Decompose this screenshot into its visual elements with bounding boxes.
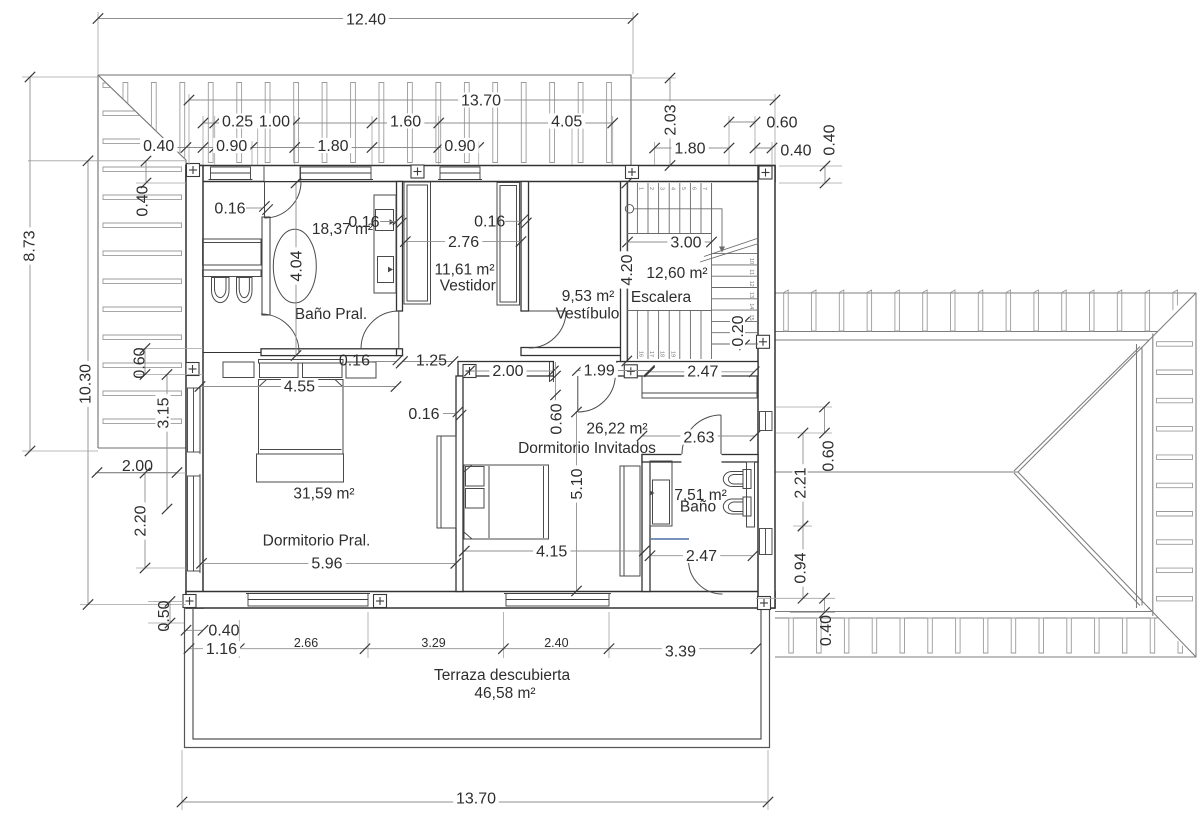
svg-text:1.00: 1.00 — [259, 113, 290, 130]
west wall — [186, 166, 203, 609]
interior wall V1: Bano Pral east — [397, 182, 403, 312]
svg-text:0.40: 0.40 — [821, 124, 838, 155]
dimension label 0.25 — [219, 113, 256, 130]
stair tread numbers (lower flight) — [638, 351, 676, 357]
dimension chain row 2 — [164, 142, 484, 152]
dimension 2.21 (vertical) — [792, 428, 809, 531]
window in south wall (Dormitorio Pral) — [246, 594, 370, 607]
svg-text:7: 7 — [701, 187, 707, 190]
svg-text:0.60: 0.60 — [766, 114, 797, 131]
svg-text:14: 14 — [748, 303, 754, 309]
dimension 0.94 (vertical) — [792, 521, 809, 604]
svg-text:3.39: 3.39 — [665, 643, 696, 660]
svg-text:1.80: 1.80 — [317, 138, 348, 155]
svg-text:2.00: 2.00 — [492, 363, 523, 380]
dimension 2.20 (vertical) — [132, 468, 150, 573]
door opening D1 in north wall (white gap) — [264, 167, 300, 182]
column marker SE — [758, 597, 771, 610]
Vestidor closet (east strip) — [497, 183, 520, 306]
svg-text:3: 3 — [659, 187, 665, 190]
dimension chain row 1 — [198, 118, 618, 128]
svg-text:Vestidor: Vestidor — [440, 278, 496, 295]
svg-text:12,60 m²: 12,60 m² — [646, 265, 707, 282]
extension lines — [22, 12, 842, 810]
svg-text:0.40: 0.40 — [143, 138, 174, 155]
Bano south door swing — [689, 560, 723, 594]
svg-text:0.90: 0.90 — [444, 138, 475, 155]
interior wall: Bano north — [642, 455, 758, 463]
svg-text:4.55: 4.55 — [284, 379, 315, 396]
svg-text:Dormitorio Invitados: Dormitorio Invitados — [518, 440, 656, 457]
svg-text:4.04: 4.04 — [288, 250, 305, 281]
dimension 4.15 — [459, 543, 649, 560]
interior wall: Bano Pral south (thin) — [261, 349, 397, 356]
Bano Pral SW door swing — [261, 314, 299, 352]
dimension 2.00 left — [92, 458, 182, 478]
window in south wall (Dormitorio Invitados) — [504, 594, 611, 607]
svg-text:0.94: 0.94 — [792, 552, 809, 583]
dimension 13.70 top — [184, 92, 780, 109]
column marker NW — [187, 164, 200, 177]
Bano Pral vanity counter — [203, 239, 262, 265]
dimension 3.00 escalera — [622, 234, 716, 251]
dimension 0.60 wall left (vertical) — [131, 343, 150, 379]
svg-text:3.00: 3.00 — [670, 234, 701, 251]
Dormitorio Invitados closet strip (north) — [642, 376, 757, 398]
Dormitorio Invitados pillow 2 — [466, 489, 485, 509]
dimension 0.40 wall right (vertical) — [820, 124, 839, 188]
dimension 0.50 (vertical) — [156, 596, 175, 631]
hip diagonal (lower) — [1018, 472, 1196, 657]
dimension 1.99 — [572, 363, 654, 380]
svg-text:10.30: 10.30 — [77, 364, 94, 404]
interior wall V3: Vestibulo/Escalera — [621, 182, 628, 362]
svg-text:0.40: 0.40 — [780, 142, 811, 159]
stair break lines — [700, 238, 759, 262]
dimension 0.40 eave left (vertical) — [134, 156, 151, 217]
dimension 0.16 bath east wall — [348, 214, 406, 231]
dimension 4.55 — [195, 379, 401, 396]
roof eave hatch strips (left band) — [103, 83, 182, 424]
Dormitorio Pral pillow 2 — [303, 363, 343, 378]
Dormitorio Pral nightstand right — [346, 362, 376, 378]
Bano Pral bidet — [237, 278, 253, 303]
Bano entry door leaf+swing — [682, 415, 721, 454]
dimension 0.40 top right — [750, 142, 812, 159]
svg-text:0.40: 0.40 — [208, 622, 239, 639]
dimension 0.16 dividing wall — [408, 406, 466, 423]
svg-text:19: 19 — [669, 351, 675, 357]
roof eave hatch strips (top band) — [123, 83, 611, 163]
svg-text:2.03: 2.03 — [662, 104, 679, 135]
svg-text:4.15: 4.15 — [536, 543, 567, 560]
window W2 in north wall (Bano Pral east) — [299, 167, 374, 180]
dimension 1.80 escalera — [649, 140, 734, 157]
svg-text:0.60: 0.60 — [131, 347, 148, 378]
hip roof outline (right wing) — [771, 293, 1196, 657]
interior wall: Vestibulo south segment (x566-621) — [521, 348, 621, 356]
dimension label 3.39 — [662, 643, 699, 660]
north wall — [186, 166, 775, 182]
Bano toilet 1 — [723, 470, 751, 489]
Vestidor closet (west strip) — [404, 182, 431, 304]
window W1 in north wall (Bano Pral) — [188, 167, 773, 607]
dimension 0.20 escalera (vertical) — [730, 312, 750, 350]
column marker N escalera — [626, 166, 639, 179]
dimension 0.60 passage — [548, 362, 565, 438]
dimension 2.47 bano — [645, 548, 758, 565]
dimension 0.40 roof right (vertical) — [818, 593, 835, 646]
svg-text:0.16: 0.16 — [348, 214, 379, 231]
south wall — [186, 592, 775, 609]
svg-text:13.70: 13.70 — [456, 790, 496, 807]
svg-text:11,61 m²: 11,61 m² — [434, 262, 494, 279]
svg-text:1.80: 1.80 — [674, 140, 705, 157]
stair start post circle — [625, 205, 633, 213]
dimension label 0.90 — [213, 138, 250, 155]
dimension 4.20 (vertical) — [619, 178, 636, 366]
Bano toilet 2 — [723, 497, 751, 516]
svg-text:1.99: 1.99 — [584, 363, 615, 380]
roof eave outline (left + top) — [98, 75, 631, 448]
Dormitorio Pral headboard — [259, 360, 344, 364]
window in east wall (lower) — [760, 529, 773, 555]
dimension 8.73 (vertical) — [21, 72, 38, 456]
svg-text:0.40: 0.40 — [818, 615, 835, 646]
hip roof ridge line — [771, 471, 1018, 473]
dimension label 1.60 — [387, 113, 424, 130]
Dormitorio Invitados tall cabinet (east) — [620, 466, 640, 576]
svg-text:Baño: Baño — [680, 499, 716, 516]
svg-text:0.25: 0.25 — [222, 113, 253, 130]
dimension 0.60 top right — [724, 114, 798, 131]
window W3 in north wall (Vestidor) — [438, 167, 482, 180]
svg-text:5: 5 — [680, 187, 686, 190]
svg-text:18: 18 — [659, 351, 665, 357]
interior wall: central band west segment (x462-553) — [458, 362, 553, 377]
stair walk line with arrow — [634, 209, 725, 253]
stair upper flight treads — [637, 183, 711, 234]
Bano Pral partition wall stub — [262, 217, 270, 315]
svg-text:0.60: 0.60 — [548, 403, 565, 434]
interior wall: central band east segment (x617-758) — [617, 362, 758, 377]
svg-text:2.63: 2.63 — [683, 429, 714, 446]
stair east flight treads — [712, 254, 759, 344]
east wall — [758, 166, 775, 609]
window in west wall (upper, Dormitorio Pral) — [188, 386, 201, 454]
hip roof hatch strips (top band) — [784, 290, 1178, 331]
svg-text:Vestíbulo: Vestíbulo — [556, 306, 620, 323]
column marker N vestidor — [411, 165, 424, 178]
svg-text:Dormitorio Pral.: Dormitorio Pral. — [263, 533, 371, 550]
dimension 2.63 — [637, 429, 760, 446]
svg-text:0.16: 0.16 — [214, 200, 245, 217]
svg-text:Baño Pral.: Baño Pral. — [295, 306, 367, 323]
dimension 4.04 (vertical) — [288, 178, 305, 361]
Bano Pral fixture rail — [203, 270, 262, 277]
svg-text:0.50: 0.50 — [156, 600, 173, 631]
svg-text:3.29: 3.29 — [421, 636, 445, 650]
Dormitorio Invitados pillow 1 — [466, 467, 485, 487]
Dormitorio Pral bed foot bench — [257, 454, 344, 482]
dimension 0.60 roof right (vertical) — [819, 402, 837, 472]
column marker W center — [186, 363, 199, 376]
column markers (+) — [183, 164, 772, 610]
dimension 0.16 vestidor wall — [474, 214, 531, 231]
dimension label 1.00 — [256, 113, 293, 130]
stair lower flight edge — [628, 310, 712, 312]
Dormitorio Pral bed — [259, 380, 344, 455]
svg-text:12.40: 12.40 — [346, 11, 386, 28]
dimension label 0.40 — [140, 138, 177, 155]
svg-text:2.66: 2.66 — [294, 636, 318, 650]
Dormitorio Pral wardrobe (east) — [437, 436, 456, 528]
Bano Pral wardrobe column (east) — [374, 195, 396, 293]
svg-text:0.16: 0.16 — [474, 214, 505, 231]
Bano Pral WC — [212, 278, 230, 303]
window in west wall (lower, Dormitorio Pral) — [188, 474, 201, 573]
stair tread numbers (east flight) — [748, 258, 754, 321]
interior wall V5: Bano west — [642, 455, 650, 592]
svg-text:1.25: 1.25 — [416, 352, 447, 369]
svg-text:2.76: 2.76 — [448, 234, 479, 251]
svg-text:2.21: 2.21 — [792, 467, 809, 498]
svg-text:5.96: 5.96 — [311, 556, 342, 573]
svg-text:46,58 m²: 46,58 m² — [474, 685, 535, 702]
Vestibulo door leaf+swing — [529, 311, 566, 348]
Dormitorio Pral nightstand left — [223, 362, 254, 378]
dimension 0.40 terrace — [181, 622, 240, 639]
dimension label 4.05 — [548, 113, 585, 130]
dimension 5.96 — [196, 556, 461, 573]
svg-text:5.10: 5.10 — [569, 468, 586, 499]
dimension 0.16 row south of bath — [339, 352, 406, 369]
stair flight separator — [711, 183, 713, 359]
dimension 3.15 (vertical) — [155, 369, 172, 514]
Dormitorio Invitados entry door leaf+swing — [578, 375, 616, 413]
hip roof hatch strips (right band) — [1157, 342, 1193, 601]
svg-text:1.16: 1.16 — [206, 641, 237, 658]
svg-text:4: 4 — [669, 187, 675, 190]
svg-text:0.20: 0.20 — [730, 315, 747, 346]
svg-text:0.60: 0.60 — [820, 440, 837, 471]
svg-text:12: 12 — [748, 281, 754, 287]
svg-text:2.47: 2.47 — [686, 548, 717, 565]
column marker center band A — [463, 365, 476, 378]
column marker center band B — [624, 365, 637, 378]
dimension 2.76 — [400, 234, 526, 251]
hip diagonal (upper) — [1018, 293, 1196, 472]
threshold line at Bano Pral SW opening — [203, 352, 261, 354]
interior wall V4: Dormitorio Pral/Invitados — [456, 376, 463, 592]
interior wall V2: Vestidor/Vestibulo — [521, 182, 529, 312]
dimension terrace chain — [184, 644, 761, 654]
dimension 2.47 escalera — [644, 364, 759, 381]
Dormitorio Invitados bed — [464, 465, 549, 539]
column marker S center — [374, 595, 387, 608]
dimension 2.00 vestibulo — [464, 363, 558, 380]
svg-text:4.20: 4.20 — [619, 254, 636, 285]
svg-text:2.00: 2.00 — [122, 458, 153, 475]
svg-text:2.47: 2.47 — [687, 364, 718, 381]
dimension 1.25 — [397, 352, 458, 369]
column marker E stair — [757, 335, 770, 348]
svg-text:0.16: 0.16 — [408, 406, 439, 423]
svg-text:9,53 m²: 9,53 m² — [562, 288, 615, 305]
terrace parapet outline — [185, 608, 770, 748]
svg-text:1: 1 — [638, 187, 644, 190]
interior wall V1 lower stub — [397, 349, 403, 356]
svg-text:6: 6 — [691, 187, 697, 190]
svg-text:13.70: 13.70 — [461, 92, 501, 109]
svg-text:2.20: 2.20 — [132, 505, 149, 536]
svg-text:4.05: 4.05 — [551, 113, 582, 130]
svg-text:0.16: 0.16 — [339, 352, 370, 369]
passage jamb stubs at x553/x577 — [552, 362, 554, 383]
svg-text:Escalera: Escalera — [631, 289, 692, 306]
svg-text:2.40: 2.40 — [544, 636, 568, 650]
svg-text:11: 11 — [748, 269, 754, 275]
stair tread numbers (upper flight) — [638, 187, 708, 190]
dimension 2.03 (vertical) — [662, 73, 679, 171]
column marker SW — [183, 595, 196, 608]
stair lower flight treads — [637, 311, 701, 360]
dimension 10.30 (vertical) — [77, 156, 94, 610]
Bano Pral whirlpool tub (ellipse) — [273, 229, 316, 303]
svg-text:10: 10 — [748, 258, 754, 264]
svg-text:17: 17 — [648, 351, 654, 357]
dimension 13.70 bottom — [177, 790, 773, 807]
Bano vanity/shower unit — [650, 461, 672, 526]
column marker NE — [759, 166, 772, 179]
Bano wall shelf strip — [747, 462, 755, 527]
dimension label 1.16 — [203, 641, 240, 658]
Bano towel rail (blue) — [651, 538, 689, 540]
svg-text:2: 2 — [648, 187, 654, 190]
svg-text:3.15: 3.15 — [155, 397, 172, 428]
dimension 5.10 (vertical) — [569, 407, 586, 596]
svg-text:0.90: 0.90 — [216, 138, 247, 155]
svg-text:16: 16 — [638, 351, 644, 357]
Bano Pral north door leaf+swing — [265, 182, 302, 219]
stair landing edge — [628, 233, 712, 235]
svg-text:Terraza descubierta: Terraza descubierta — [434, 667, 571, 684]
svg-text:26,22 m²: 26,22 m² — [586, 421, 647, 438]
door opening in Bano north wall (white gap) — [682, 454, 722, 464]
dimension 12.40 — [93, 11, 638, 28]
svg-text:1.60: 1.60 — [390, 113, 421, 130]
svg-text:31,59 m²: 31,59 m² — [293, 486, 354, 503]
hip roof hatch strips (bottom band) — [789, 618, 1183, 653]
exterior walls of main house — [186, 166, 775, 609]
dimension label 0.90 — [441, 138, 478, 155]
window in east wall (upper) — [760, 412, 773, 431]
svg-text:8.73: 8.73 — [21, 230, 38, 261]
svg-text:13: 13 — [748, 292, 754, 298]
eave hip diagonal (top-left corner) — [98, 75, 186, 160]
dimension label 1.80 — [314, 138, 351, 155]
dimension 0.16 bath partition — [214, 200, 272, 217]
svg-text:0.40: 0.40 — [134, 185, 151, 216]
Bano Pral SE door leaf+swing — [361, 311, 399, 349]
Dormitorio Pral pillow 1 — [260, 363, 299, 378]
